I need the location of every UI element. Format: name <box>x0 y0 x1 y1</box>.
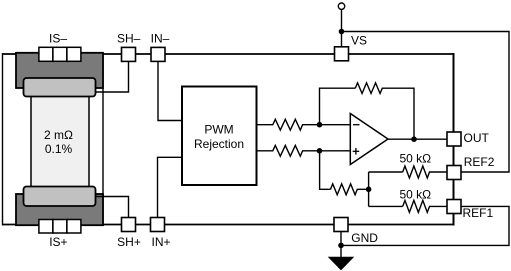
ground symbol <box>329 257 353 270</box>
pin SH+ <box>122 218 136 232</box>
terminal IS+ pads <box>39 220 53 234</box>
svg-text:IN+: IN+ <box>151 235 170 249</box>
svg-text:REF2: REF2 <box>464 155 495 169</box>
svg-text:50 kΩ: 50 kΩ <box>400 152 432 166</box>
svg-text:Rejection: Rejection <box>194 137 244 151</box>
op-amp plus sign <box>353 150 360 152</box>
wire: top Kelvin sense to SH- <box>96 62 129 93</box>
resistor: feedback <box>355 83 414 139</box>
wire: GND pin to ground <box>340 232 342 259</box>
node: supply junction <box>339 29 345 35</box>
pin OUT <box>447 132 461 146</box>
svg-text:IN–: IN– <box>151 31 170 45</box>
shunt outline left edge <box>2 53 4 226</box>
shunt resistor top pad <box>16 53 103 88</box>
resistor: PWM out to non-inverting input <box>257 145 351 156</box>
wire: IN+ to PWM block <box>158 157 183 217</box>
pin SH- <box>122 47 136 61</box>
node: non-inverting input junction <box>317 148 323 154</box>
pin IN- <box>151 47 165 61</box>
wire: supply to VS pin <box>341 9 343 47</box>
shunt resistor body R_SHUNT 2 mOhm <box>31 90 89 200</box>
node: output/feedback junction <box>411 136 417 142</box>
svg-text:PWM: PWM <box>204 123 233 137</box>
svg-text:OUT: OUT <box>464 131 490 145</box>
shunt outline right edge <box>102 54 104 225</box>
pin VS <box>335 47 349 61</box>
resistor: PWM out to inverting input <box>257 119 351 130</box>
svg-text:REF1: REF1 <box>463 206 494 220</box>
svg-text:IS+: IS+ <box>49 235 67 249</box>
terminal IS- pads <box>39 47 53 61</box>
node: divider junction <box>366 187 372 193</box>
svg-text:2 mΩ: 2 mΩ <box>44 128 73 142</box>
wire: REF1 to ground return (outer right) <box>341 206 509 245</box>
PWM Rejection block <box>182 87 257 186</box>
svg-text:VS: VS <box>351 34 367 48</box>
wire: top bus (IC top edge) <box>3 53 454 55</box>
node: ground junction <box>338 243 344 249</box>
wire: IC right edge <box>453 53 455 226</box>
shunt resistor bottom pad <box>16 194 103 225</box>
shunt resistor bottom sense cap <box>24 187 96 207</box>
svg-text:0.1%: 0.1% <box>45 142 73 156</box>
pin REF2 <box>447 166 461 180</box>
resistor: 50 kOhm (REF1) <box>403 200 447 212</box>
node: inverting input junction <box>317 122 323 128</box>
svg-text:SH+: SH+ <box>117 235 141 249</box>
wire: bottom bus (IC bottom edge) <box>3 224 454 226</box>
svg-text:IS–: IS– <box>49 31 67 45</box>
wire: bottom Kelvin sense to SH+ <box>96 197 129 218</box>
supply terminal circle <box>338 3 344 9</box>
wire: op-amp output to OUT pin <box>388 138 447 140</box>
pin REF1 <box>447 200 461 214</box>
wire: IN- to PWM block <box>158 62 182 121</box>
resistor: 50 kOhm (REF2) <box>403 166 447 178</box>
wire: divider center rail <box>368 172 370 206</box>
svg-text:SH–: SH– <box>117 31 141 45</box>
op-amp minus sign <box>353 124 360 126</box>
wire: non-inverting node to divider <box>320 151 331 190</box>
shunt resistor top sense cap <box>24 78 96 97</box>
wire: to REF1 resistor <box>369 205 403 207</box>
pin GND <box>334 218 348 232</box>
svg-text:GND: GND <box>351 231 378 245</box>
wire: supply to REF2 (outer right) <box>342 32 510 173</box>
svg-text:50 kΩ: 50 kΩ <box>400 188 432 202</box>
pin IN+ <box>151 218 165 232</box>
op-amp U1 <box>350 114 388 165</box>
wire: to REF2 resistor <box>369 171 403 173</box>
resistor: divider input <box>331 184 369 195</box>
wire: feedback loop <box>320 88 356 125</box>
